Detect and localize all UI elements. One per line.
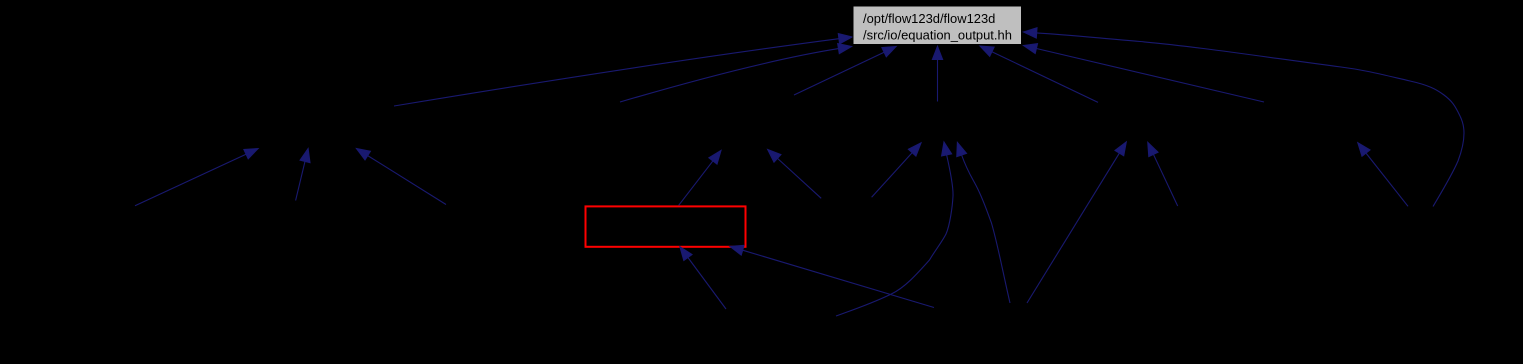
edge n14->n2c (left bottom curve) xyxy=(836,142,953,316)
edge n6->main xyxy=(980,46,1098,102)
edge n13->n2c xyxy=(872,143,921,197)
edge n15->n2d xyxy=(1027,142,1126,303)
edge n2->main (long left upper) xyxy=(394,34,852,106)
edge n17->n2e xyxy=(1358,143,1408,207)
edge n12->n2b xyxy=(768,150,822,199)
edge n9->n2a xyxy=(135,149,258,206)
main node /opt/flow123d/flow123d/src/io/equation_output.hh xyxy=(853,6,1022,45)
svg-text:/opt/flow123d/flow123d: /opt/flow123d/flow123d xyxy=(863,11,995,26)
edge n10->n2a xyxy=(296,149,310,201)
edge n4->main xyxy=(794,47,896,96)
svg-text:/src/io/equation_output.hh: /src/io/equation_output.hh xyxy=(863,27,1012,42)
edge red->n2b xyxy=(679,151,721,206)
edge n18->red xyxy=(680,247,726,309)
edge n16->n2d xyxy=(1148,142,1178,206)
selected node (red highlight) xyxy=(586,206,746,246)
edge n7->main (long right) xyxy=(1024,44,1265,102)
edge n8->main (big right curve) xyxy=(1024,28,1465,207)
edge n5->main (vertical) xyxy=(932,46,942,101)
edge n11->n2a xyxy=(357,149,447,205)
edge n19->red (shallow) xyxy=(730,245,934,307)
edge n3->main (long left lower) xyxy=(620,44,852,102)
edge n15->n2c (right bottom curve) xyxy=(957,143,1010,304)
